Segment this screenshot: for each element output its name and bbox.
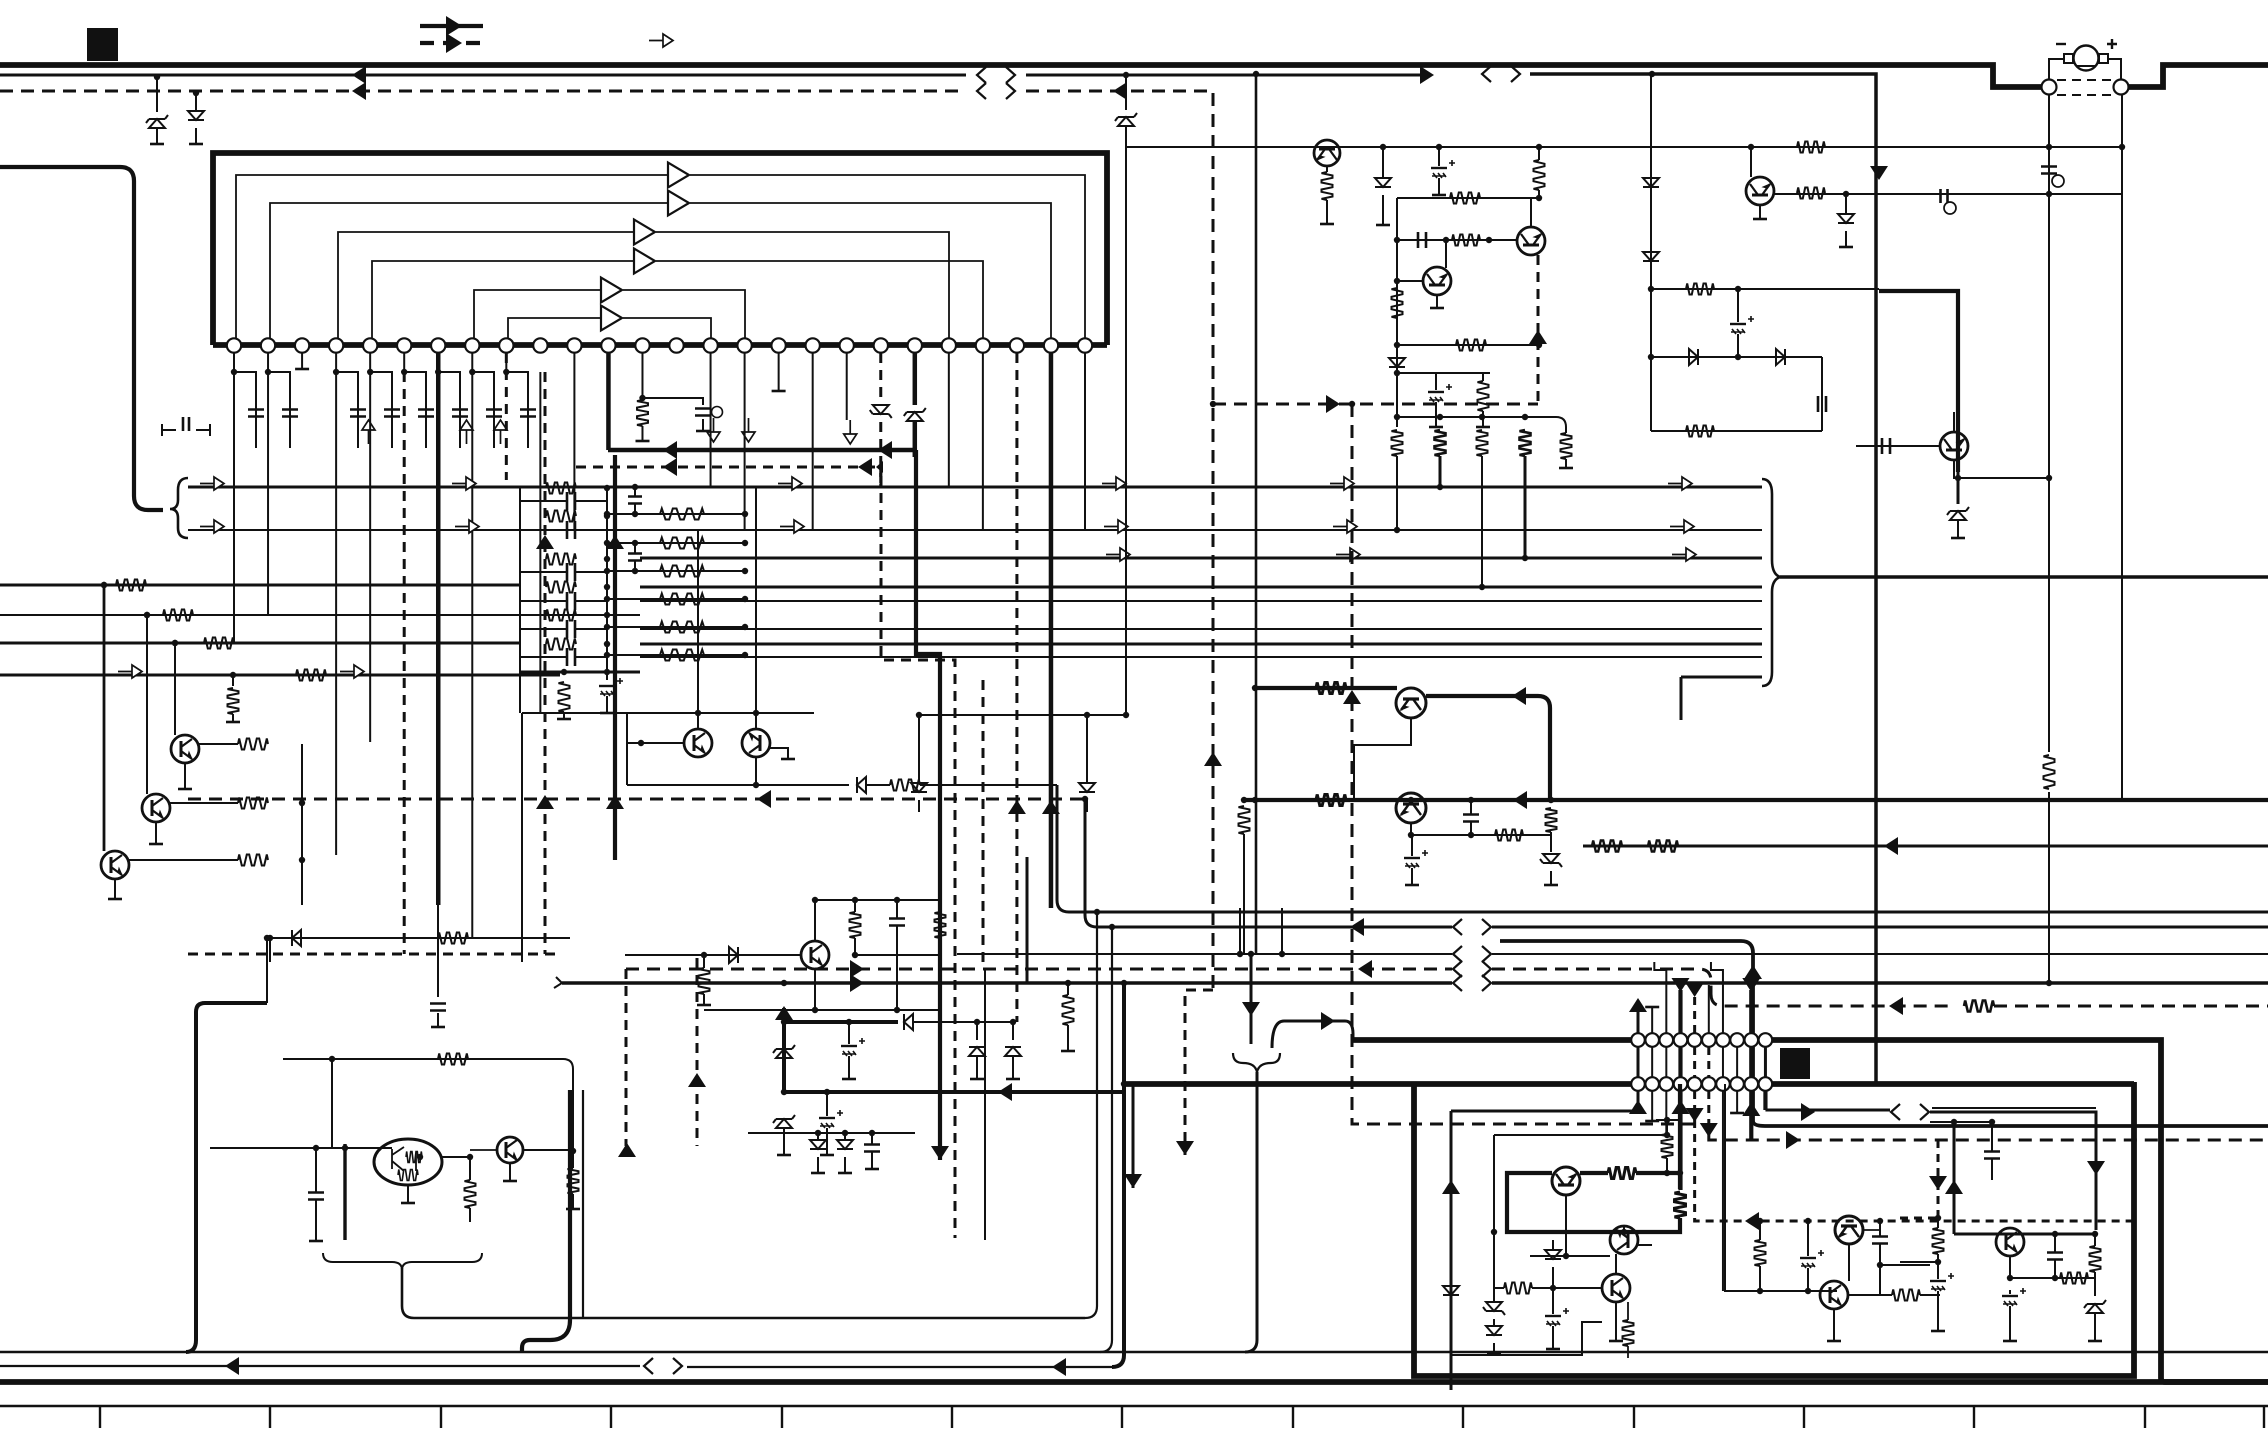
diode D9 (918, 715, 920, 783)
wire H2 y927 (1085, 799, 1452, 927)
wire if left rail (1493, 1135, 1495, 1296)
wire thick stub (343, 1144, 346, 1240)
wire qB collector (1530, 198, 1532, 227)
wire pin1 long drop (233, 372, 235, 643)
wire dashed bus left (0, 90, 966, 93)
arrow legend solid right arrow (420, 24, 483, 28)
op-amp buffers U1 internal (668, 163, 689, 188)
capacitor C38 (1872, 1237, 1888, 1244)
resistor R45 (1316, 683, 1346, 694)
wire dashed x626 riser (625, 969, 628, 1146)
ground q emitter (509, 1164, 511, 1180)
wire qE base (1856, 445, 1940, 447)
resistor R12 (559, 682, 570, 712)
wire y1059 link (283, 1059, 573, 1151)
wire rfr dash vert x1938 low (1900, 1217, 1938, 1220)
wire vertical x522 drop (521, 713, 523, 962)
capacitor C41 (2002, 1295, 2018, 1297)
wire IC pin bus bottom (213, 342, 1107, 348)
wire x1256 vertical (1255, 74, 1258, 954)
capacitor C20 (628, 554, 642, 561)
wire thick y688 right (1426, 696, 1550, 800)
brace funnel brace (1233, 1053, 1280, 1072)
capacitor C23 (1438, 147, 1440, 166)
arrow hollow down 1 (707, 418, 720, 442)
wire qE emitter (1954, 460, 1958, 478)
wire q right wire (523, 1149, 573, 1151)
wire signal y530 (188, 529, 1762, 531)
resistor R8 (546, 554, 576, 565)
wire thick link y450 (608, 448, 916, 453)
node junction 1958-478 (1955, 475, 1961, 481)
wire bottom line 1 (0, 1351, 2268, 1353)
wire y715 link (919, 714, 1126, 716)
wire x332 drop (331, 1059, 333, 1148)
wire dashed elbow (881, 476, 955, 1238)
resistor R57 (1675, 1192, 1686, 1218)
node dashed bus break (977, 83, 1015, 99)
wire dashed 1213 up arrow (1204, 752, 1222, 766)
resistor R18 (607, 654, 745, 656)
wire pin24 dashed drop (1015, 353, 1018, 1022)
wire pin25 thick drop (1049, 353, 1054, 908)
resistor R31 (1450, 193, 1480, 204)
wire q bottom join (704, 955, 940, 1010)
arrow hollow y672 left (118, 665, 142, 678)
wire dashed qB emitter (1537, 255, 1540, 404)
arrow hollow y487 (1102, 477, 1126, 490)
resistor R41 (1686, 426, 1714, 437)
wire rf q4 wires (1848, 1244, 1850, 1281)
transistor Q13 (1396, 688, 1426, 718)
wire q cluster wires (625, 954, 801, 956)
resistor R9 (546, 582, 576, 593)
wire pin6 dashed drop (403, 372, 406, 954)
wire y357 wire (1651, 356, 1822, 358)
wire y1112 arrow line (1765, 1109, 1890, 1112)
wire link y938 (270, 937, 570, 939)
diode D21 (776, 1049, 792, 1058)
capacitor C16 (567, 620, 575, 638)
node break y969 (1453, 961, 1491, 977)
arrow hollow y487 (1330, 477, 1354, 490)
wire pin22 drop (948, 353, 950, 487)
diode D29 (1486, 1326, 1502, 1335)
wire pin9 dashed drop (505, 353, 508, 480)
resistor R48 (1495, 830, 1523, 841)
resistor R14 (607, 542, 745, 544)
diode D19 (1543, 854, 1559, 863)
wire x1240 stub (1239, 908, 1241, 954)
resistor R21 (238, 798, 268, 809)
resistor R53 (438, 1054, 468, 1065)
arrow hollow y530 (455, 520, 479, 533)
resistor R56 (1063, 995, 1074, 1025)
wire rfr q wires (2010, 1256, 2095, 1278)
diode D13 (1643, 178, 1659, 187)
resistor R17 (607, 626, 745, 628)
capacitor C19 (628, 497, 642, 504)
capacitor C33 (841, 1045, 857, 1047)
wire inner frame (1414, 1082, 2134, 1376)
wire rfr wire2 (1930, 1121, 1992, 1123)
transistor Q12 (1940, 432, 1968, 460)
wire pin7 thick drop (436, 353, 441, 905)
wire thick rise x784 (782, 1008, 786, 1092)
node connector row A pins (1631, 1033, 1645, 1047)
wire y1112 cont (1930, 1112, 2096, 1230)
wire dashed y404 (1213, 403, 1538, 406)
wire horizontal link y147 to battery (1126, 146, 2049, 148)
wire long y969 dashed (626, 968, 1452, 971)
arrow hollow up (460, 420, 473, 444)
arrow hollow up (494, 420, 507, 444)
diode D24 (776, 1119, 792, 1128)
arrow hollow y487 (200, 477, 224, 490)
resistor R23 (890, 780, 920, 791)
resistor R55 (568, 1168, 579, 1194)
arrow hollow down 2 (742, 418, 755, 442)
arrow down arrow x1879 (1870, 166, 1888, 180)
resistor R15 (607, 570, 745, 572)
transistor Q9 (1517, 227, 1545, 255)
wire thick left elbow (186, 1003, 267, 1352)
wire signal y558 (640, 557, 1762, 560)
wire y835 link (1411, 822, 1551, 835)
wire signal y487 (188, 486, 1762, 489)
wire thick x940 drop (916, 450, 940, 1160)
wire H1 y912 (1057, 785, 2268, 912)
wire pin4 drop long (335, 372, 337, 855)
wire connector interlinks (1637, 1047, 1640, 1077)
resistor R30 (1534, 160, 1545, 190)
wire thick y800 (1244, 798, 2268, 802)
transistor Q22 (1996, 1228, 2024, 1256)
wire cluster mid wires (210, 1147, 380, 1149)
resistor R2 (296, 670, 326, 681)
diode D6 (857, 777, 866, 793)
wire pin2 long drop (267, 372, 269, 615)
resistor R40 (1686, 284, 1714, 295)
diode D8 (729, 947, 738, 963)
resistor R47 (1239, 806, 1250, 834)
wire ladder rail left (519, 488, 521, 713)
capacitor C7 (404, 353, 426, 448)
resistor R46 (1316, 795, 1346, 806)
wire y289 wire (1651, 288, 1879, 290)
brace left brace bundle (170, 478, 188, 538)
node break y954 (1453, 946, 1491, 962)
wire long y954 thin (957, 953, 1452, 955)
diode D31 (2087, 1304, 2103, 1313)
capacitor C39 (1984, 1152, 2000, 1159)
wire clusterL y417 row (1397, 417, 1566, 433)
node connector row B pins (1631, 1077, 1645, 1091)
transistor Q3 (142, 794, 170, 822)
arrow hollow y558 (1672, 548, 1696, 561)
capacitor C6 (370, 353, 392, 448)
wire qC wires (1445, 240, 1447, 268)
capacitor C36 (1545, 1315, 1561, 1317)
wire x1251 feed (1250, 954, 1253, 1044)
capacitor C37 (1800, 1257, 1816, 1259)
arrow hollow y487 (1668, 477, 1692, 490)
wire dashed 1213 lower (1212, 408, 1215, 990)
resistor R60 (1504, 1283, 1532, 1294)
wire under brace drop to y1318 (402, 1268, 1085, 1318)
wire bus2 mid segment (1026, 74, 1420, 77)
capacitor C13 (567, 521, 575, 539)
resistor R27 (935, 912, 946, 938)
wire bundled output (1780, 575, 2268, 578)
arrow hollow y530 (1104, 520, 1128, 533)
diode D17 (1845, 193, 1847, 214)
capacitor C5 (336, 353, 358, 448)
transistor Q4 (101, 851, 129, 879)
arrow legend hollow arrow (649, 34, 673, 47)
resistor R22 (238, 855, 268, 866)
resistor R42 (1797, 188, 1825, 199)
wire rfr horiz 1234 (1954, 1233, 2096, 1236)
wire conn stubs below (1637, 1091, 1640, 1111)
resistor R6 (546, 483, 576, 494)
resistor R54 (465, 1180, 476, 1208)
arrow hollow y487 (452, 477, 476, 490)
wire q interlink (1354, 718, 1411, 801)
capacitor C42 (1930, 1280, 1946, 1282)
wire top thick bus (0, 65, 2042, 87)
wire pin8 drop (471, 372, 473, 938)
node IC pin circles 1-26 (227, 338, 241, 352)
diode D5 (913, 353, 918, 405)
diode D4 (879, 353, 882, 405)
resistor R28 (1322, 172, 1333, 200)
wire row y1133 (748, 1132, 915, 1134)
wire pair feeds (697, 530, 699, 713)
wire H3 y941 (1500, 941, 2268, 1126)
transistor Q15 (374, 1139, 442, 1185)
wire pin18 drop (812, 353, 814, 530)
capacitor C10 (506, 353, 528, 448)
arrow hollow y672 mid (340, 665, 364, 678)
wire rfr vert (1953, 1122, 1956, 1234)
wire y672 feed to brace (1681, 677, 1762, 720)
wire conn bus top (1353, 1040, 2268, 1382)
wire pin26 drop (1084, 353, 1086, 530)
arrow hollow down 3 (844, 420, 857, 444)
wire rf q4 right (1863, 1229, 1880, 1231)
resistor R16 (607, 598, 745, 600)
resistor R58 (1608, 1168, 1636, 1179)
wire conn stubs above (1637, 1000, 1640, 1033)
wire pin5 drop (369, 372, 371, 742)
wire pair box (522, 712, 814, 714)
wire bus2 left segment (0, 74, 966, 77)
node break y983 (1453, 975, 1491, 991)
wire trio join vertical (301, 744, 303, 905)
wire y147 extend (2049, 146, 2122, 148)
wire oval wires (380, 1147, 392, 1149)
wire pin12 thick drop (606, 353, 611, 450)
wire signal y587 (640, 586, 1762, 589)
transistor Q18 (1610, 1226, 1638, 1254)
wire pin23 drop (982, 353, 984, 530)
capacitor C18 (604, 669, 610, 675)
resistor R13 (607, 513, 745, 515)
wire signal y644 (640, 643, 1762, 646)
wire funnel stem (1245, 1072, 1257, 1352)
resistor R37 (1477, 430, 1488, 456)
resistor R25 (699, 968, 710, 994)
wire qE collector (1953, 412, 1955, 432)
wire x1027 riser (1026, 857, 1029, 983)
resistor R62 (1755, 1240, 1766, 1266)
resistor R38 (1520, 430, 1531, 456)
capacitor C32 (308, 1193, 324, 1200)
wire x1133 arrow (1132, 1084, 1135, 1188)
capacitor C4 (268, 353, 290, 448)
wire y194 base line (1774, 193, 2122, 195)
wire dashed run y799 (188, 798, 1085, 801)
diode D3 (1123, 72, 1129, 78)
capacitor C35 (864, 1145, 880, 1152)
capacitor C28 (1882, 438, 1890, 454)
wire rfr dashed (1937, 1140, 1940, 1218)
wire x1126 long vertical (1125, 147, 1127, 715)
resistor R66 (1933, 1228, 1944, 1254)
wire pin10 drop (539, 372, 541, 713)
wire x985 down (984, 969, 986, 1240)
transistor Q8 (1314, 140, 1340, 166)
resistor R50 (1592, 841, 1622, 852)
wire left vert pair (582, 1090, 584, 1318)
wire V3 x1124 (1112, 983, 1124, 1367)
wire q top/bottom (814, 900, 816, 1010)
wire clusterL y373 (1397, 372, 1490, 374)
arrow hollow up (362, 420, 375, 444)
wire pair bottom wire (627, 784, 843, 786)
arrow hollow y530 (1670, 520, 1694, 533)
capacitor C17 (567, 648, 575, 666)
resistor R35 (1392, 430, 1403, 456)
diode D10 (1086, 715, 1088, 783)
wire if bottom link (1451, 1322, 1602, 1355)
diode D15 (1689, 349, 1698, 365)
transistor Q7 (801, 941, 829, 969)
diode D2 (195, 93, 197, 112)
wire long y983 thick (562, 981, 1452, 985)
wire dashed pin drop to y467 (879, 467, 882, 487)
node black square marker top-left (87, 28, 118, 61)
capacitor C24 (1418, 232, 1426, 248)
wire signal y601 (640, 600, 1762, 602)
wire y431 wire (1651, 430, 1822, 432)
arrow hollow y558 (1106, 548, 1130, 561)
arrow hollow y487 (778, 477, 802, 490)
capacitor C30 (1404, 857, 1420, 859)
capacitor C3 (234, 353, 256, 448)
motor M1 (2074, 46, 2099, 71)
diode D12 (1389, 358, 1405, 367)
wire clusterL y240 (1397, 239, 1517, 241)
wire bus2 right segment to vertical (1530, 74, 1876, 1082)
resistor R65 (2060, 1273, 2088, 1284)
node connector circle left (2042, 80, 2057, 95)
diode D28 (1486, 1302, 1502, 1311)
transistor Q5 (684, 729, 712, 757)
resistor R34 (1478, 381, 1489, 411)
wire trio bases (103, 585, 106, 851)
wire rfr y1262 (1900, 1261, 1938, 1263)
diode D22 (976, 1022, 978, 1040)
diode D20 (904, 1014, 913, 1030)
wire ladder bottom thick (520, 671, 640, 674)
wire rfr rect (1932, 1107, 2096, 1109)
wire pin16 drop (744, 353, 746, 530)
capacitor C26 (1730, 323, 1746, 325)
node bus2 break (977, 67, 1015, 83)
capacitor C40 (2047, 1253, 2063, 1260)
node black square marker 2 (1780, 1048, 1810, 1079)
wire big S-curve thick (522, 1090, 570, 1352)
wire ladder rail right (606, 488, 608, 672)
ground trio emitters (184, 763, 186, 788)
wire if q2 (1530, 1195, 1610, 1256)
resistor R51 (1648, 841, 1678, 852)
wire V2 x1112 (1100, 927, 1112, 1352)
resistor R7 (546, 511, 576, 522)
resistor R10 (546, 610, 576, 621)
diode D11 (1382, 147, 1384, 178)
wire clusterL left rail (1396, 198, 1398, 427)
transistor Q2 (171, 735, 199, 763)
wire pin11 drop (573, 353, 575, 530)
resistor R39 (1561, 433, 1572, 459)
diode D1 (156, 77, 158, 112)
wire left thick feeder (0, 167, 163, 510)
ground pin17 stub (778, 353, 780, 390)
resistor R59 (1662, 1134, 1673, 1158)
transistor Q19 (1602, 1274, 1630, 1302)
wire dashed y954 left (188, 953, 560, 956)
wire if y1135 wire (1494, 1134, 1666, 1136)
wire x2122 vertical (2121, 94, 2123, 800)
wire if q3 conn (1615, 1254, 1617, 1340)
wire bottom line 3 (0, 1405, 2268, 1407)
transistor Q16 (497, 1137, 523, 1163)
node connector circle right (2114, 80, 2129, 95)
arrow hollow y558 (1336, 548, 1360, 561)
capacitor C15 (567, 592, 575, 610)
wire dashed bus right + corner down (1026, 91, 1213, 404)
capacitor C1 (2041, 167, 2057, 174)
diode D16 (1776, 349, 1785, 365)
wire thick y688 (1255, 686, 1397, 690)
resistor R52 (1964, 1001, 1994, 1012)
resistor R26 (850, 912, 861, 938)
wire pin19 drop (846, 353, 848, 420)
wire rf thin rect (1725, 1084, 1837, 1291)
wire clusterL y345 (1397, 344, 1539, 346)
wire V1 x1097 (1085, 912, 1097, 1318)
capacitor C2 (1941, 189, 1948, 203)
capacitor C11 (642, 398, 703, 405)
transistor Q21 (1820, 1281, 1848, 1309)
capacitor C9 (472, 353, 494, 448)
brace right bundle brace (1762, 479, 1780, 686)
diode D18 (1957, 472, 1960, 504)
node bus2 break 2 (1482, 66, 1520, 82)
